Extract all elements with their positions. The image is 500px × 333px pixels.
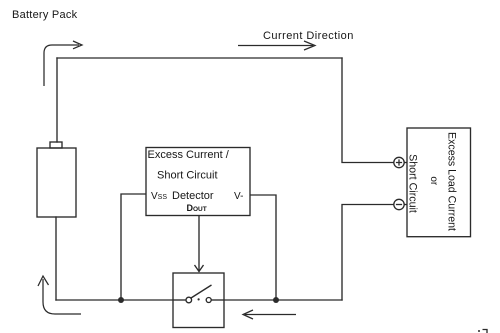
svg-text:Excess Load Current: Excess Load Current [446, 132, 458, 231]
svg-text:V-: V- [234, 191, 243, 202]
svg-text:Battery Pack: Battery Pack [12, 9, 78, 21]
svg-text:Excess Current /: Excess Current / [148, 149, 230, 161]
svg-text:Short Circuit: Short Circuit [407, 154, 419, 213]
svg-text:Current Direction: Current Direction [263, 30, 354, 42]
svg-text:Detector: Detector [172, 190, 214, 202]
svg-text:Short Circuit: Short Circuit [157, 170, 218, 182]
svg-text:or: or [428, 176, 439, 186]
